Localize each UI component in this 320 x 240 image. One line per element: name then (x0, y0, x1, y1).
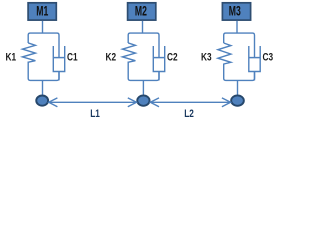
wire bottom bar (224, 64, 255, 81)
wire mass to bar (142, 21, 144, 33)
damper C2 piston plate (153, 57, 165, 59)
svg-text:M3: M3 (229, 4, 241, 19)
dimension line L1 (49, 101, 137, 103)
svg-text:L2: L2 (184, 108, 194, 120)
arrowhead L1 left (49, 98, 58, 107)
svg-text:M1: M1 (36, 4, 48, 19)
wire top bar with branches (224, 33, 255, 57)
mass M1 box (28, 3, 56, 20)
arrowhead L1 right (128, 98, 137, 107)
node 1 (36, 96, 48, 106)
spring K3 (218, 43, 231, 64)
node 3 (231, 95, 244, 105)
svg-text:C1: C1 (67, 52, 78, 64)
svg-text:L1: L1 (90, 108, 100, 120)
wire mass to bar (42, 21, 44, 33)
wire top bar with branches (28, 33, 59, 57)
damper C3 piston plate (249, 57, 261, 59)
wire bottom bar (128, 62, 159, 81)
svg-text:K1: K1 (6, 52, 17, 64)
spring K2 (122, 43, 135, 62)
damper C1 piston plate (53, 57, 65, 59)
svg-text:K3: K3 (201, 52, 212, 64)
wire bar to node (42, 80, 44, 94)
svg-text:C3: C3 (263, 52, 274, 64)
mass M2 box (128, 3, 156, 20)
svg-text:K2: K2 (106, 52, 117, 64)
svg-text:C2: C2 (167, 52, 178, 64)
arrowhead L2 right (222, 98, 231, 107)
arrowhead L2 left (150, 98, 159, 107)
wire bottom bar (28, 62, 59, 81)
dimension line L2 (150, 101, 230, 103)
wire cup to bottom bar (158, 72, 160, 81)
wire cup to bottom bar (254, 72, 256, 81)
wire top bar with branches (128, 33, 159, 57)
wire cup to bottom bar (58, 72, 60, 81)
mass M3 box (222, 3, 250, 20)
node 2 (137, 95, 149, 105)
spring K1 (22, 43, 35, 62)
wire bar to node (142, 80, 144, 95)
wire bar to node (237, 80, 239, 95)
damper C1 cup (53, 46, 64, 72)
svg-text:M2: M2 (135, 4, 147, 19)
damper C2 cup (153, 46, 164, 72)
wire mass to bar (236, 21, 238, 33)
damper C3 cup (249, 46, 260, 72)
